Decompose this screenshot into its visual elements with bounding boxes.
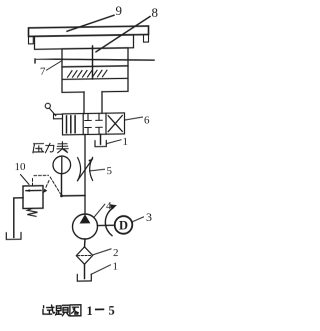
pump 4 <box>73 214 98 239</box>
tank 1 (relief outlet) <box>6 233 21 240</box>
pressure gauge <box>53 156 71 174</box>
svg-text:6: 6 <box>144 115 150 127</box>
label 1 (valve tank) leader <box>107 140 122 144</box>
cylinder 7 body <box>62 66 128 93</box>
piston 8 (upper cylinder box with divider) <box>62 48 128 80</box>
svg-text:1: 1 <box>122 136 127 148</box>
filter 2 <box>76 247 92 265</box>
gauge stem pipe <box>61 174 63 196</box>
label 8 leader <box>96 17 150 52</box>
throttle valve 5 <box>78 157 93 180</box>
valve centre closed T symbols <box>85 114 102 134</box>
svg-text:1: 1 <box>87 304 93 318</box>
valve left position bars <box>67 116 76 133</box>
cylinder flange line <box>35 57 154 63</box>
label 9 leader <box>67 15 114 31</box>
压力表 gauge caption (stroke art) <box>33 142 68 154</box>
piston rod <box>92 46 94 49</box>
suction pipe pump to filter <box>84 239 87 247</box>
valve right position crossed arrows <box>108 115 122 131</box>
svg-text:5: 5 <box>109 304 115 318</box>
relief valve outlet pipe <box>14 198 23 238</box>
tank 1 under valve <box>95 140 106 146</box>
motor 3 <box>115 216 133 234</box>
pipe B cylinder to valve <box>101 92 103 114</box>
label 5 leader <box>90 169 105 171</box>
svg-text:5: 5 <box>107 165 113 177</box>
svg-text:7: 7 <box>40 66 46 78</box>
P pipe valve to pump <box>84 135 86 215</box>
label 2 leader <box>93 249 111 255</box>
svg-text:1: 1 <box>113 260 118 272</box>
pipe A cylinder to valve <box>83 92 85 114</box>
label 1 (main tank) leader <box>91 265 111 275</box>
cylinder wall hatching <box>68 70 108 77</box>
label 7 leader <box>47 61 62 70</box>
relief valve 10 <box>23 175 61 216</box>
motor shaft <box>98 224 115 226</box>
svg-text:D: D <box>119 219 128 233</box>
label 10 leader <box>21 174 30 184</box>
svg-text:2: 2 <box>113 247 118 259</box>
valve T-port pipe to tank <box>100 134 102 144</box>
directional valve 6 body <box>63 113 125 135</box>
caption 试题图 1-5 <box>43 305 81 317</box>
worktable 9 (top beam with end lips and slide strip) <box>29 26 149 49</box>
pipe filter to tank <box>84 264 86 278</box>
tank 1 (main) <box>77 274 91 281</box>
svg-text:3: 3 <box>146 210 152 224</box>
label 6 leader <box>126 117 143 120</box>
label 4 leader <box>94 204 105 217</box>
valve lever <box>45 103 62 119</box>
svg-text:8: 8 <box>152 5 158 20</box>
svg-text:9: 9 <box>116 3 122 18</box>
svg-text:10: 10 <box>15 161 26 173</box>
label 3 leader <box>133 217 144 222</box>
branch pipe to main line <box>62 195 86 197</box>
motor rotation arrow <box>105 208 113 236</box>
